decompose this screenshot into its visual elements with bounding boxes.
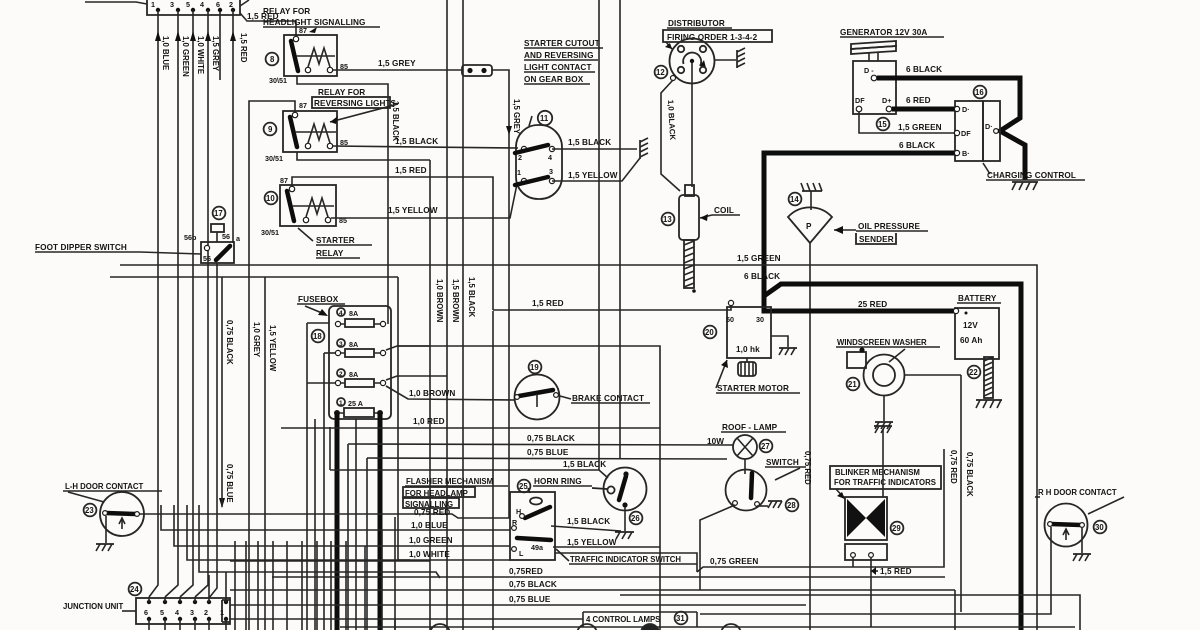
svg-text:21: 21: [848, 380, 857, 389]
svg-text:49a: 49a: [531, 543, 544, 552]
wire 1.5 RED relay10 87: [292, 166, 493, 310]
wire dipper bus: [110, 276, 398, 278]
node 21: [847, 378, 860, 391]
svg-text:1,5 YELLOW: 1,5 YELLOW: [568, 171, 618, 180]
svg-text:B·: B·: [962, 149, 970, 158]
svg-text:HORN RING: HORN RING: [534, 477, 582, 486]
svg-text:27: 27: [761, 442, 770, 451]
wire 1.0 GREEN flasher feed: [174, 505, 510, 630]
wire 0.75 BLACK bottom bus: [230, 580, 955, 630]
switch 11 gearbox contact: [515, 116, 562, 199]
wire fuse1 thick left: [335, 413, 340, 630]
label blinker mechanism: [830, 466, 941, 499]
foot dipper switch 17: [184, 224, 241, 263]
node 23: [84, 504, 97, 517]
wire 1.5 RED blinker out: [871, 558, 912, 627]
svg-text:2: 2: [204, 608, 208, 617]
svg-text:R H DOOR CONTACT: R H DOOR CONTACT: [1038, 488, 1117, 497]
wire junction bus upper: [199, 505, 440, 578]
svg-text:1,5 BLACK: 1,5 BLACK: [567, 517, 610, 526]
svg-text:17: 17: [214, 209, 223, 218]
svg-text:15: 15: [878, 120, 887, 129]
starter motor 20: [726, 300, 771, 376]
svg-text:RELAY FOR: RELAY FOR: [318, 88, 365, 97]
wire 1.5 RED to starter 50: [493, 299, 731, 310]
svg-text:0,75 BLUE: 0,75 BLUE: [527, 448, 569, 457]
label distributor firing order: [663, 19, 772, 49]
svg-text:1,5 YELLOW: 1,5 YELLOW: [268, 325, 277, 372]
svg-text:2: 2: [339, 371, 343, 378]
fuse 3 8A: [335, 339, 385, 357]
svg-text:18: 18: [313, 332, 322, 341]
roof lamp switch 28: [700, 458, 806, 590]
svg-text:56: 56: [203, 254, 211, 263]
wire 1.5 RED vertical to foot dipper: [233, 10, 248, 243]
svg-text:STARTER CUTOUT: STARTER CUTOUT: [524, 39, 600, 48]
wire vertical col 660: [397, 346, 660, 630]
L-H door contact 23: [63, 482, 162, 543]
svg-text:0,75 RED: 0,75 RED: [803, 451, 812, 485]
oil pressure sender 14: [788, 191, 832, 243]
node 8: [266, 53, 279, 66]
node 28: [786, 499, 799, 512]
wire 1.0 BLUE vertical: [149, 10, 170, 597]
svg-text:RELAY FOR: RELAY FOR: [263, 7, 310, 16]
R-H door contact 30: [700, 488, 1124, 614]
ground (charging thick): [1012, 182, 1038, 190]
svg-text:D·: D·: [985, 122, 993, 131]
node 19: [529, 361, 542, 374]
svg-text:D·: D·: [962, 105, 970, 114]
svg-text:0,75 BLACK: 0,75 BLACK: [509, 580, 557, 589]
brake contact 19: [515, 375, 560, 420]
svg-text:0,75 RED: 0,75 RED: [949, 450, 958, 484]
svg-text:SWITCH: SWITCH: [766, 458, 799, 467]
svg-text:26: 26: [631, 514, 640, 523]
horn ring 26: [533, 468, 647, 532]
wire long bus 595: [620, 595, 1080, 630]
svg-text:GENERATOR 12V 30A: GENERATOR 12V 30A: [840, 28, 927, 37]
node 12: [655, 66, 668, 79]
label flasher mechanism: [403, 477, 508, 509]
svg-text:SENDER: SENDER: [859, 235, 894, 244]
svg-text:1,5 YELLOW: 1,5 YELLOW: [567, 538, 617, 547]
svg-text:L: L: [519, 549, 524, 558]
wire 0.75 BLACK to roof lamp: [348, 434, 733, 630]
label relay for reversing lights: [312, 88, 398, 124]
svg-text:0,75 BLUE: 0,75 BLUE: [225, 464, 234, 503]
svg-text:6 RED: 6 RED: [906, 96, 931, 105]
svg-text:1,0 BROWN: 1,0 BROWN: [409, 389, 455, 398]
svg-text:FOOT DIPPER SWITCH: FOOT DIPPER SWITCH: [35, 243, 127, 252]
svg-text:1: 1: [517, 168, 521, 177]
svg-text:1,5 GREEN: 1,5 GREEN: [737, 254, 781, 263]
svg-text:11: 11: [540, 114, 549, 123]
wire relay8 30/51 down: [297, 76, 400, 324]
windscreen washer 21: [836, 338, 961, 421]
svg-text:FLASHER MECHANISM: FLASHER MECHANISM: [406, 477, 493, 486]
node 24: [129, 583, 142, 596]
svg-text:FUSEBOX: FUSEBOX: [298, 295, 339, 304]
svg-text:30: 30: [1095, 523, 1104, 532]
svg-text:4: 4: [200, 0, 204, 9]
wire fuse3 left: [324, 353, 335, 630]
arrow marks on loom wires: [155, 31, 236, 41]
wire 6 RED generator D+: [892, 96, 955, 109]
svg-text:STARTER: STARTER: [316, 236, 355, 245]
node 14: [789, 193, 802, 206]
wire 6 BLACK B down to starter and bus: [744, 272, 1021, 630]
svg-text:30/51: 30/51: [261, 228, 279, 237]
wire relay9 87 loop left: [249, 101, 295, 630]
svg-text:13: 13: [663, 215, 672, 224]
svg-text:OIL PRESSURE: OIL PRESSURE: [858, 222, 920, 231]
battery earth strap: [984, 357, 993, 398]
svg-text:50: 50: [726, 315, 734, 324]
svg-text:28: 28: [787, 501, 796, 510]
label 4 control lamps 31: [583, 612, 697, 627]
svg-text:1,5 RED: 1,5 RED: [395, 166, 427, 175]
node 13: [662, 213, 675, 226]
svg-text:4 CONTROL LAMPS: 4 CONTROL LAMPS: [586, 615, 660, 624]
relay 9 reversing lights relay: [265, 101, 348, 163]
wire vertical cols mid: [315, 311, 493, 630]
wire 0.75 RED flasher feed: [137, 508, 510, 630]
ground (gearbox): [640, 138, 648, 159]
svg-text:1,5 GREY: 1,5 GREY: [512, 99, 521, 135]
fuse 4 8A: [335, 308, 385, 327]
svg-text:4: 4: [548, 153, 552, 162]
node 9: [264, 123, 277, 136]
wire 25 RED starter to battery: [764, 300, 956, 311]
ground (LH door): [96, 544, 114, 551]
wire fuse2 left: [307, 382, 335, 384]
label relay for headlight signalling: [263, 7, 380, 27]
svg-text:JUNCTION UNIT: JUNCTION UNIT: [63, 602, 123, 611]
wire 0.75 BLUE bottom bus: [230, 595, 806, 605]
svg-text:DF: DF: [961, 129, 971, 138]
svg-text:6: 6: [216, 0, 220, 9]
svg-text:D -: D -: [864, 66, 874, 75]
svg-text:0,75RED: 0,75RED: [509, 567, 543, 576]
wire 1.5 RED to relay 8: [240, 12, 296, 37]
svg-text:1,0 BROWN: 1,0 BROWN: [435, 279, 444, 323]
svg-text:0,75 BLACK: 0,75 BLACK: [225, 320, 234, 365]
wire 1.0 GREY vertical: [252, 322, 261, 358]
ground (distributor): [714, 48, 745, 68]
svg-text:1,0 WHITE: 1,0 WHITE: [196, 36, 205, 74]
node 29: [891, 522, 904, 535]
svg-text:25 A: 25 A: [348, 399, 363, 408]
wire fuse3 out 1.0 BROWN col: [386, 160, 444, 630]
svg-text:19: 19: [530, 363, 539, 372]
svg-text:29: 29: [892, 524, 901, 533]
svg-text:22: 22: [969, 368, 978, 377]
wire relay9 30/51 to brown column: [297, 152, 430, 160]
svg-text:8A: 8A: [349, 309, 358, 318]
svg-text:3: 3: [190, 608, 194, 617]
svg-text:2: 2: [229, 0, 233, 9]
fusebox 18: [307, 306, 391, 630]
svg-text:87: 87: [299, 101, 307, 110]
svg-text:1,0 BLUE: 1,0 BLUE: [411, 521, 448, 530]
svg-text:1,5 BLACK: 1,5 BLACK: [467, 277, 476, 318]
svg-text:12V: 12V: [963, 321, 978, 330]
svg-text:30: 30: [756, 315, 764, 324]
label brake contact: [560, 394, 650, 403]
svg-text:16: 16: [975, 88, 984, 97]
svg-text:1,5 BLACK: 1,5 BLACK: [395, 137, 438, 146]
svg-text:6 BLACK: 6 BLACK: [899, 141, 935, 150]
wire 0.75 BLUE: [367, 448, 727, 630]
svg-text:1,0 hk: 1,0 hk: [736, 345, 760, 354]
node 20: [704, 326, 717, 339]
wire top verticals to horn: [599, 0, 620, 470]
svg-text:ROOF - LAMP: ROOF - LAMP: [722, 423, 778, 432]
svg-text:P: P: [806, 222, 812, 231]
wire 1.5 YELLOW vertical: [265, 277, 277, 630]
svg-text:0,75 BLACK: 0,75 BLACK: [527, 434, 575, 443]
svg-text:COIL: COIL: [714, 206, 734, 215]
wire 6 BLACK generator D-: [877, 65, 1025, 180]
svg-text:1,5 GREY: 1,5 GREY: [211, 36, 220, 72]
coil 13: [679, 185, 699, 293]
svg-text:L-H DOOR CONTACT: L-H DOOR CONTACT: [65, 482, 143, 491]
wire 1.5 YELLOW gearbox to ground: [552, 158, 640, 181]
label foot dipper switch: [35, 243, 201, 254]
svg-text:56: 56: [222, 232, 230, 241]
svg-text:1: 1: [339, 400, 343, 407]
svg-text:0,75 BLUE: 0,75 BLUE: [509, 595, 551, 604]
connector block (lighting switch, cut off at top): [85, 0, 249, 80]
node 16: [974, 86, 987, 99]
wire vertical 509 grey down: [508, 148, 510, 518]
label starter motor: [716, 360, 800, 393]
wire 1.5 BLACK flasher to horn: [551, 517, 621, 531]
svg-text:20: 20: [705, 328, 714, 337]
svg-text:R: R: [512, 518, 518, 527]
wire 1.5 GREY relay8 to gearbox: [333, 59, 521, 148]
svg-text:5: 5: [186, 0, 190, 9]
svg-text:4: 4: [339, 310, 343, 317]
wire 1.0 BLUE flasher feed: [161, 505, 510, 630]
svg-text:TRAFFIC INDICATOR SWITCH: TRAFFIC INDICATOR SWITCH: [570, 555, 681, 564]
relay 8 headlight signalling relay: [269, 26, 348, 85]
svg-text:1: 1: [151, 0, 155, 9]
wire 1.5 YELLOW flasher out: [553, 538, 660, 547]
ground (battery): [976, 400, 1002, 408]
label fusebox: [297, 295, 345, 316]
svg-text:5: 5: [160, 608, 164, 617]
label starter cutout on gear box: [524, 39, 603, 84]
ground (starter motor): [771, 336, 797, 355]
fuse 2 8A: [335, 369, 385, 387]
svg-text:9: 9: [268, 125, 273, 134]
fuse 1 25A: [334, 398, 383, 417]
label charging control: [983, 163, 1085, 180]
svg-text:31: 31: [676, 614, 685, 623]
svg-text:BRAKE CONTACT: BRAKE CONTACT: [572, 394, 644, 403]
wire 0.75 GREEN: [697, 449, 958, 572]
control lamp (bottom edge): [395, 620, 741, 630]
ground (RH door): [1073, 554, 1091, 561]
svg-text:WINDSCREEN WASHER: WINDSCREEN WASHER: [837, 338, 927, 347]
wire 1.0 BROWN fuse2 to brake: [386, 386, 515, 400]
node 15: [877, 118, 890, 131]
svg-text:6: 6: [144, 608, 148, 617]
label traffic indicator switch: [556, 549, 697, 564]
svg-text:1: 1: [220, 608, 224, 617]
svg-text:8A: 8A: [349, 370, 358, 379]
svg-text:AND REVERSING: AND REVERSING: [524, 51, 594, 60]
svg-text:1,0 RED: 1,0 RED: [413, 417, 445, 426]
svg-text:2: 2: [518, 153, 522, 162]
svg-text:24: 24: [130, 585, 139, 594]
svg-text:25 RED: 25 RED: [858, 300, 887, 309]
label oil pressure sender: [834, 222, 928, 244]
wire 1.5 BLACK col: [463, 0, 476, 630]
node 25: [518, 480, 531, 493]
svg-text:1,0 BLUE: 1,0 BLUE: [161, 36, 170, 70]
svg-text:3: 3: [549, 167, 553, 176]
svg-text:DF: DF: [855, 96, 865, 105]
wire 1.0 WHITE flasher feed: [187, 505, 510, 560]
node 27: [760, 440, 773, 453]
svg-text:1,5 BROWN: 1,5 BROWN: [451, 279, 460, 323]
node 22: [968, 366, 981, 379]
node 18: [312, 330, 325, 343]
charging control 16 regulator: [954, 101, 1000, 161]
label coil: [700, 206, 740, 221]
wire 0.75 RED bottom bus: [272, 567, 945, 577]
svg-text:0,75 RED: 0,75 RED: [414, 508, 450, 517]
wire 1.5 GREY vertical: [195, 10, 220, 597]
generator 15 body: [853, 61, 896, 114]
svg-text:LIGHT CONTACT: LIGHT CONTACT: [524, 63, 592, 72]
svg-text:ON GEAR BOX: ON GEAR BOX: [524, 75, 584, 84]
svg-text:0,75 BLACK: 0,75 BLACK: [965, 452, 974, 497]
blinker mechanism 29: [845, 429, 887, 560]
wire 0.75 BLUE drop label: [219, 464, 234, 508]
label generator: [840, 28, 944, 37]
svg-text:BATTERY: BATTERY: [958, 294, 997, 303]
wire vertical col 398: [398, 277, 410, 560]
svg-text:REVERSING LIGHTS: REVERSING LIGHTS: [314, 99, 397, 108]
junction unit 24: [136, 572, 230, 630]
wire oil sender down: [803, 243, 812, 630]
wire 1.5 BLACK gearbox to ground: [552, 138, 637, 149]
svg-text:BLINKER MECHANISM: BLINKER MECHANISM: [835, 468, 920, 477]
wire fuse1 thick right: [378, 413, 383, 630]
flasher mechanism 25: [510, 488, 555, 560]
node 10: [265, 192, 278, 205]
svg-text:3: 3: [339, 341, 343, 348]
wire 1.5 GREEN DF: [859, 112, 955, 133]
svg-text:4: 4: [175, 608, 179, 617]
svg-text:1,5 RED: 1,5 RED: [239, 33, 248, 63]
svg-text:8A: 8A: [349, 340, 358, 349]
wire washer down: [961, 375, 974, 612]
svg-text:D+: D+: [882, 96, 891, 105]
wire 1.0 RED bus: [281, 417, 660, 428]
svg-text:1,0 GREY: 1,0 GREY: [252, 322, 261, 358]
wire bottom rail 627: [340, 626, 1075, 628]
svg-text:25: 25: [519, 482, 528, 491]
svg-text:0,75 GREEN: 0,75 GREEN: [710, 557, 758, 566]
battery 22: [953, 294, 1001, 359]
wire 1.5 YELLOW relay10 to gearbox pin1: [331, 184, 517, 218]
generator 15 pulley: [851, 41, 896, 61]
relay 10 starter relay: [261, 176, 347, 237]
svg-text:RELAY: RELAY: [316, 249, 344, 258]
wire 0.75 BLACK vertical: [222, 277, 234, 507]
node 11: [538, 111, 552, 125]
ground (blinker top): [874, 426, 892, 433]
wire foot dipper down: [209, 263, 217, 598]
svg-text:1,5 BLACK: 1,5 BLACK: [568, 138, 611, 147]
ground (oil sender): [801, 183, 822, 191]
svg-text:1,0 GREEN: 1,0 GREEN: [409, 536, 453, 545]
wire vertical cols bottom left: [235, 541, 346, 630]
svg-text:HEADLIGHT SIGNALLING: HEADLIGHT SIGNALLING: [263, 18, 366, 27]
svg-text:1,0 GREEN: 1,0 GREEN: [181, 36, 190, 77]
wire junction out 618: [230, 618, 583, 620]
svg-text:56b: 56b: [184, 233, 197, 242]
svg-text:1,5 GREEN: 1,5 GREEN: [898, 123, 942, 132]
svg-text:14: 14: [790, 195, 799, 204]
svg-text:60 Ah: 60 Ah: [960, 336, 983, 345]
svg-text:30\51: 30\51: [269, 76, 287, 85]
svg-text:STARTER MOTOR: STARTER MOTOR: [717, 384, 789, 393]
node 17: [213, 207, 226, 220]
wire junction out 604: [230, 560, 430, 562]
ground (horn ring): [615, 532, 634, 539]
svg-text:12: 12: [656, 68, 665, 77]
svg-text:10: 10: [266, 194, 275, 203]
svg-text:H: H: [516, 507, 521, 516]
ground (washer): [875, 422, 893, 429]
svg-text:30/51: 30/51: [265, 154, 283, 163]
ground (roof switch): [757, 501, 782, 508]
svg-text:8: 8: [270, 55, 275, 64]
svg-text:3: 3: [170, 0, 174, 9]
wire 1.5 BLACK relay9 to gearbox: [333, 137, 518, 148]
svg-text:CHARGING CONTROL: CHARGING CONTROL: [987, 171, 1076, 180]
svg-text:1,5 RED: 1,5 RED: [880, 567, 912, 576]
svg-text:1,5 RED: 1,5 RED: [532, 299, 564, 308]
svg-text:23: 23: [85, 506, 94, 515]
label junction unit: [63, 602, 136, 611]
label starter relay: [298, 228, 372, 258]
wire 1.0 BLACK distributor down: [661, 80, 680, 191]
svg-text:1,5 GREY: 1,5 GREY: [378, 59, 416, 68]
svg-text:FOR TRAFFIC INDICATORS: FOR TRAFFIC INDICATORS: [834, 478, 936, 487]
wire fuse2 out 1.5 BROWN col: [386, 0, 460, 630]
roof lamp 27: [707, 423, 786, 459]
wire 1.0 GREEN vertical: [165, 10, 190, 597]
svg-text:6 BLACK: 6 BLACK: [744, 272, 780, 281]
node 26: [630, 512, 643, 525]
wire 1.5 GREEN long bus: [120, 254, 1037, 630]
svg-text:DISTRIBUTOR: DISTRIBUTOR: [668, 19, 725, 28]
wire 1.0 WHITE vertical: [180, 10, 205, 597]
wire 1.5 BLACK to horn ring: [330, 427, 608, 478]
distributor 12: [670, 39, 715, 84]
wire blinker left terminal down: [852, 558, 854, 567]
svg-text:6 BLACK: 6 BLACK: [906, 65, 942, 74]
wire traffic switch out 0.75 GREEN: [555, 553, 697, 572]
svg-text:1,0 WHITE: 1,0 WHITE: [409, 550, 450, 559]
